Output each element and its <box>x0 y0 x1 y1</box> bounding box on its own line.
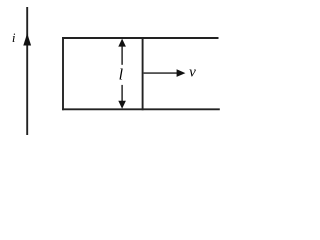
length arrow down head <box>118 101 126 109</box>
svg-text:i: i <box>12 30 16 45</box>
length arrow lower shaft <box>121 85 123 102</box>
velocity arrow shaft <box>144 72 178 74</box>
svg-text:v: v <box>189 64 196 80</box>
rail bottom <box>62 108 220 110</box>
wire: long straight current-carrying wire <box>26 7 28 135</box>
left conductor: closed left side of loop <box>62 37 64 110</box>
rod: sliding conducting rod <box>142 37 144 110</box>
rail top <box>62 37 218 39</box>
svg-text:l: l <box>119 67 124 84</box>
length arrow up head <box>118 39 126 47</box>
length arrow upper shaft <box>121 46 123 65</box>
velocity arrow head <box>177 69 186 77</box>
current arrow on wire <box>23 33 31 45</box>
